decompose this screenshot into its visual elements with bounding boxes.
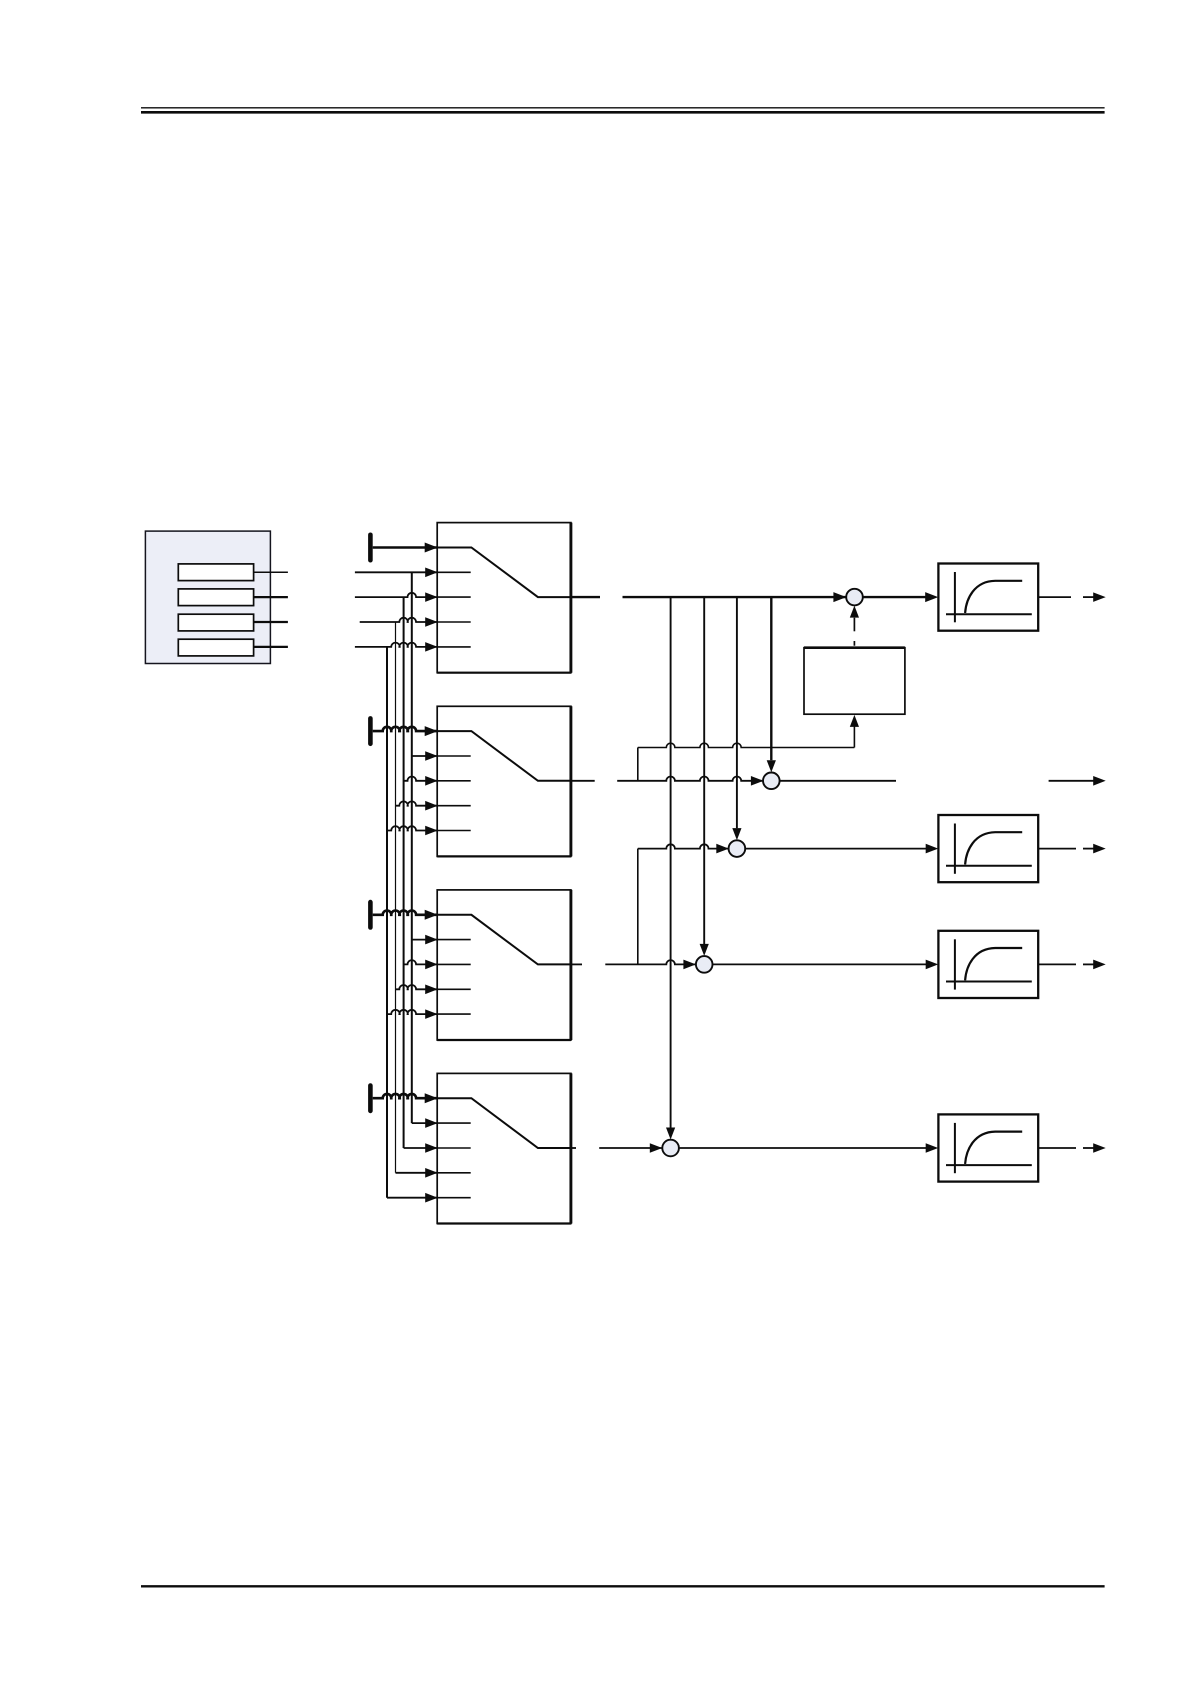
summing junction S5: [662, 1140, 679, 1157]
filter block F2: [938, 815, 1038, 882]
wire net-D to MUX3 input 5: [387, 1010, 437, 1014]
wire register R3 output stub: [254, 621, 288, 623]
bus vertical net-B (R2 signal): [403, 597, 405, 1148]
row-3 output arrow: [1038, 848, 1076, 850]
wire register R4 to MUX1 input 5: [355, 643, 437, 647]
bus vertical net-D (R4 signal): [386, 647, 388, 1198]
page header rule (thin): [141, 107, 1105, 109]
bus vertical net-A (R1 signal): [411, 572, 413, 1123]
wire dropper to summer S4: [703, 597, 705, 944]
filter block F1: [938, 564, 1038, 631]
wire dropper to summer S3: [736, 597, 738, 828]
MUX2 input pin 2 stub: [437, 755, 471, 757]
wire branch MUX2 output up to correction block: [637, 748, 639, 781]
wire net-C to MUX2 input 4: [396, 801, 438, 805]
row-1 output arrow: [1038, 596, 1071, 598]
page header rule (thick): [141, 111, 1105, 114]
wire summer S2 output: [780, 780, 896, 782]
MUX4 input pin 3 stub: [437, 1147, 471, 1149]
dashed wire correction block to summer S1: [853, 641, 855, 646]
register block (shaded): [145, 531, 270, 663]
MUX3 input pin 2 stub: [437, 939, 471, 941]
MUX1 input pin 3 stub: [437, 596, 471, 598]
filter block F3: [938, 931, 1038, 998]
register R3: [178, 614, 253, 631]
row-5 output arrow: [1038, 1147, 1076, 1149]
MUX4 selector symbol: [437, 1098, 571, 1148]
MUX3 input pin 4 stub: [437, 988, 471, 990]
correction block box: [804, 648, 905, 715]
wire net-B to MUX3 input 3: [404, 960, 438, 964]
MUX1 input pin 5 stub: [437, 646, 471, 648]
wire branch MUX3 output up to summer S3: [637, 849, 639, 965]
wire MUX1 output stub: [571, 596, 600, 598]
register R1: [178, 564, 253, 581]
MUX2 input pin 4 stub: [437, 805, 471, 807]
multiplexer MUX2 box: [437, 706, 571, 856]
wire MUX1 output to summer S1: [623, 596, 847, 598]
wire constant-1 to MUX2 input 1: [373, 727, 438, 731]
wire net-B to MUX4 input 3: [404, 1147, 438, 1149]
wire summer S3 to filter F2: [745, 848, 926, 850]
register R2: [178, 589, 253, 606]
wire MUX4 output to summer S5: [599, 1147, 662, 1149]
summing junction S2: [763, 773, 780, 790]
wire register R1 output stub: [254, 571, 288, 573]
wire net-D to MUX2 input 5: [387, 826, 437, 830]
wire net-C to MUX4 input 4: [396, 1172, 438, 1174]
wire net-B to MUX2 input 3: [404, 777, 438, 781]
summing junction S4: [696, 956, 713, 973]
wire constant-1 to MUX1 input 1: [373, 546, 438, 549]
wire register R3 to MUX1 input 4: [360, 618, 438, 622]
constant 1 source for MUX2: [368, 716, 373, 746]
multiplexer MUX4 box: [437, 1073, 571, 1223]
row-2 output arrow: [1049, 780, 1094, 782]
multiplexer MUX3 box: [437, 890, 571, 1040]
wire to summer S3: [638, 844, 729, 848]
MUX1 input pin 4 stub: [437, 621, 471, 623]
wire register R2 output stub: [254, 596, 288, 598]
wire feed to correction block: [638, 743, 855, 747]
constant 1 source for MUX1: [368, 533, 373, 563]
MUX1 selector symbol: [437, 548, 571, 598]
wire summer S1 to filter F1: [863, 596, 926, 598]
wire register R1 to MUX1 input 2: [355, 571, 437, 573]
MUX2 input pin 3 stub: [437, 780, 471, 782]
wire MUX2 output stub: [571, 780, 595, 782]
wire dropper to summer S2: [770, 597, 772, 760]
page footer rule: [141, 1585, 1105, 1587]
wire dropper to summer S5: [670, 597, 672, 1128]
wire net-D to MUX4 input 5: [387, 1197, 437, 1199]
MUX3 input pin 5 stub: [437, 1013, 471, 1015]
wire constant-1 to MUX4 input 1: [373, 1094, 438, 1098]
wire register R4 output stub: [254, 646, 288, 648]
MUX1 input pin 2 stub: [437, 571, 471, 573]
wire MUX3 output stub: [571, 963, 582, 965]
summing junction S3: [729, 840, 746, 857]
multiplexer MUX1 box: [437, 523, 571, 673]
constant 1 source for MUX3: [368, 900, 373, 930]
MUX2 input pin 5 stub: [437, 830, 471, 832]
constant 1 source for MUX4: [368, 1083, 373, 1113]
summing junction S1: [846, 589, 863, 606]
filter block F4: [938, 1114, 1038, 1181]
wire MUX2 output to summer S2: [617, 776, 763, 780]
wire net-A to MUX4 input 2: [412, 1122, 437, 1124]
MUX3 selector symbol: [437, 915, 571, 965]
wire constant-1 to MUX3 input 1: [373, 910, 438, 914]
wire net-A to MUX2 input 2: [412, 755, 437, 757]
wire MUX4 output stub: [571, 1147, 576, 1149]
wire summer S4 to filter F3: [713, 963, 927, 965]
wire net-A to MUX3 input 2: [412, 939, 437, 941]
wire net-C to MUX3 input 4: [396, 985, 438, 989]
MUX4 input pin 2 stub: [437, 1122, 471, 1124]
register R4: [178, 639, 253, 656]
MUX3 input pin 3 stub: [437, 963, 471, 965]
MUX4 input pin 5 stub: [437, 1197, 471, 1199]
wire summer S5 to filter F4: [679, 1147, 926, 1149]
row-4 output arrow: [1038, 963, 1076, 965]
bus vertical net-C (R3 signal): [395, 622, 397, 1173]
MUX4 input pin 4 stub: [437, 1172, 471, 1174]
wire register R2 to MUX1 input 3: [355, 593, 437, 597]
wire MUX3 output to summer S4: [605, 960, 696, 964]
MUX2 selector symbol: [437, 731, 571, 781]
